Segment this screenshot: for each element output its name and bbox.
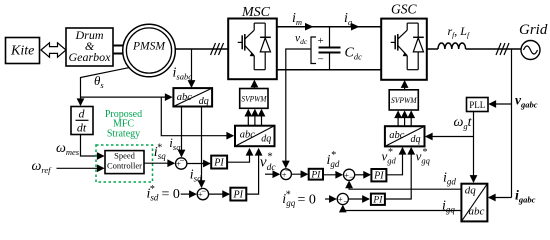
Drum & Gearbox block [66,28,113,66]
svg-text:−: − [318,54,324,66]
svg-text:= 0: = 0 [298,193,316,208]
bidirectional coupling arrow [41,43,66,57]
IGBT Q (MSC) [238,23,255,70]
shaft coupling [113,45,124,47]
wire PI4 to abc/dq (v_gd*) [386,148,402,175]
Speed Controller block [105,151,144,174]
dq/abc block (MSC modulation) [235,126,275,147]
summing junction S5 (i_gq) [337,193,348,204]
wire theta branch to dq/abc [161,97,233,136]
wire GSC to filter [427,48,438,50]
svg-text:PMSM: PMSM [132,41,166,53]
MSC converter box [228,19,277,80]
svg-text:PI: PI [232,190,243,201]
PI controller PI4 [371,169,386,181]
svg-text:*: * [286,189,291,200]
wire S2 to PI2 [209,193,229,195]
diode D (GSC) [407,23,424,70]
svg-text:−: − [343,197,348,207]
wires abc/dq to SVPWM (GSC) [397,112,399,127]
abc/dq block (GSC modulation) [385,126,425,146]
wire S1 to PI1 [187,163,210,165]
svg-text:Strategy: Strategy [107,128,140,139]
svg-text:abc: abc [177,92,193,103]
wire i_sd feedback [201,107,203,187]
PLL block [467,98,489,112]
wire into S2 [181,193,196,195]
svg-text:PI: PI [213,158,224,169]
svg-text:dq: dq [199,96,209,107]
three-phase slash [211,43,224,55]
capacitor C_dc [319,27,341,70]
green MFC strategy dashed box [96,145,153,182]
dq/abc block (grid current transform) [461,184,487,222]
svg-text:SVPWM: SVPWM [241,94,267,104]
wire PI2 to dq/abc [246,149,258,194]
wire v_dc* into S3 [265,173,279,175]
PMSM machine [123,24,176,77]
wire PI1 to dq/abc [227,149,249,162]
svg-text:MSC: MSC [241,5,271,20]
PI controller PI5 [371,194,385,205]
svg-text:abc: abc [389,130,405,141]
svg-text:dq: dq [411,134,421,145]
svg-text:−: − [349,172,354,182]
wire PI3 to S4 [323,174,342,176]
svg-text:Speed: Speed [114,150,136,160]
wire S5 to PI5 [348,198,368,200]
inductor r_f L_f [438,43,466,49]
PI controller PI1 [211,156,227,169]
dc bus bottom rail [277,69,381,71]
wire d/dt to speed controller [81,135,104,157]
Kite block [6,38,40,64]
svg-text:−: − [285,166,290,176]
wire i_gabc into dq/abc [489,197,512,199]
svg-text:ωgt: ωgt [454,115,473,131]
svg-text:SVPWM: SVPWM [391,95,417,105]
v_dc sense bracket [311,37,316,64]
svg-text:Gearbox: Gearbox [69,50,112,64]
summing junction S2 (i_sd) [197,188,208,199]
d/dt block [71,107,93,135]
wire i_sq feedback [181,107,183,157]
svg-text:*: * [150,184,155,195]
SVPWM block (MSC) [240,89,268,109]
wire grid sense drop [511,49,513,198]
wire S3 to PI3 [291,173,307,175]
wire SVPWM to MSC [253,81,255,89]
wire i_gd feedback [349,182,461,190]
svg-text:−: − [201,186,206,196]
wire PLL output w_g t [473,112,475,182]
GSC converter box [381,19,427,80]
wires dq/abc to SVPWM (MSC) [247,110,249,126]
wire i_gq feedback [343,206,462,211]
Grid source [521,41,540,60]
dc bus top rail [277,26,381,28]
abc/dq block 1 (current transform) [173,88,212,107]
svg-text:*: * [157,143,162,154]
svg-text:dq: dq [261,133,271,144]
svg-text:+: + [338,194,343,204]
wire S4 to PI4 [355,174,370,176]
summing junction S3 (v_dc) [281,169,292,180]
svg-text:dt: dt [77,121,87,135]
summing junction S1 (i_sq) [176,158,187,169]
svg-text:abc: abc [240,129,256,140]
wire SVPWM to GSC [404,81,406,90]
svg-text:*: * [388,147,393,158]
diode D (MSC) [254,23,271,70]
svg-text:d: d [79,107,86,121]
svg-text:PI: PI [310,170,321,180]
three-phase slash [496,43,509,55]
svg-text:abc: abc [469,206,485,218]
svg-text:= 0: = 0 [162,187,180,202]
wire SC output i_sq* [144,162,174,164]
wire branch to abc/dq [426,136,474,138]
svg-text:Controller: Controller [107,160,142,170]
theta_s tap from PMSM [81,68,130,106]
svg-text:GSC: GSC [391,2,417,17]
wire PI5 to abc/dq (v_gq*) [385,148,411,199]
wire to PLL [490,103,512,105]
svg-text:rf, Lf: rf, Lf [448,24,470,40]
svg-text:*: * [331,150,336,161]
wire filter to grid [466,48,521,50]
wire theta to abc/dq [81,96,172,98]
wire PMSM to MSC [175,48,228,50]
svg-text:dq: dq [465,185,477,197]
IGBT Q (GSC) [391,23,408,70]
PI controller PI2 [230,188,246,201]
svg-text:Grid: Grid [519,22,548,38]
svg-text:Kite: Kite [10,44,34,59]
SVPWM block (GSC) [389,90,418,110]
wire w_ref input [57,167,104,169]
svg-text:PLL: PLL [469,100,485,110]
svg-text:+: + [318,35,324,47]
svg-text:PI: PI [372,196,383,206]
svg-text:−: − [180,156,185,166]
summing junction S4 (i_gd) [344,169,355,180]
svg-text:*: * [423,147,428,158]
wire i_sabc branch [191,49,193,87]
wire v_dc sense line [286,49,311,167]
wire into S5 [325,198,336,200]
PI controller PI3 [309,169,323,180]
svg-text:*: * [267,150,273,162]
svg-text:PI: PI [373,171,384,182]
